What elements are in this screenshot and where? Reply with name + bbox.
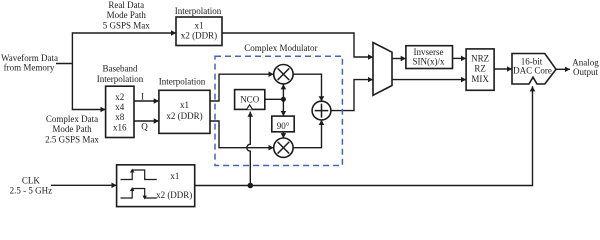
svg-text:x2 (DDR): x2 (DDR): [166, 111, 202, 121]
svg-text:from Memory: from Memory: [4, 62, 55, 72]
svg-text:Interpolation: Interpolation: [175, 6, 222, 16]
svg-text:Mode Path: Mode Path: [52, 124, 92, 134]
svg-text:I: I: [141, 92, 144, 102]
svg-text:Mode Path: Mode Path: [107, 10, 147, 20]
svg-text:Complex Modulator: Complex Modulator: [244, 43, 317, 53]
svg-text:x1: x1: [195, 21, 204, 31]
svg-text:Complex Data: Complex Data: [46, 114, 98, 124]
svg-text:DAC Core: DAC Core: [513, 66, 552, 76]
svg-text:2.5 GSPS Max: 2.5 GSPS Max: [45, 134, 99, 144]
svg-text:Output: Output: [573, 67, 599, 77]
svg-text:Invserse: Invserse: [414, 47, 444, 57]
svg-text:Interpolation: Interpolation: [159, 76, 206, 86]
svg-text:90°: 90°: [277, 121, 290, 131]
svg-text:x2 (DDR): x2 (DDR): [181, 31, 217, 41]
svg-text:x1: x1: [170, 171, 179, 181]
svg-text:x1: x1: [180, 100, 189, 110]
svg-text:Interpolation: Interpolation: [97, 74, 144, 84]
svg-text:NRZ: NRZ: [471, 53, 489, 63]
svg-text:x2 (DDR): x2 (DDR): [156, 190, 192, 200]
svg-text:Real Data: Real Data: [108, 0, 144, 10]
svg-text:RZ: RZ: [474, 64, 486, 74]
svg-text:Q: Q: [141, 122, 148, 132]
svg-text:Baseband: Baseband: [103, 64, 138, 74]
svg-text:x2: x2: [115, 92, 124, 102]
svg-text:CLK: CLK: [22, 176, 41, 186]
svg-text:2.5 - 5 GHz: 2.5 - 5 GHz: [10, 186, 53, 196]
svg-text:x8: x8: [115, 112, 125, 122]
svg-text:NCO: NCO: [240, 94, 260, 104]
svg-text:SIN(x)/x: SIN(x)/x: [413, 57, 445, 67]
svg-text:x16: x16: [113, 122, 127, 132]
svg-text:5 GSPS Max: 5 GSPS Max: [103, 20, 151, 30]
svg-text:x4: x4: [115, 102, 125, 112]
svg-text:MIX: MIX: [471, 74, 489, 84]
